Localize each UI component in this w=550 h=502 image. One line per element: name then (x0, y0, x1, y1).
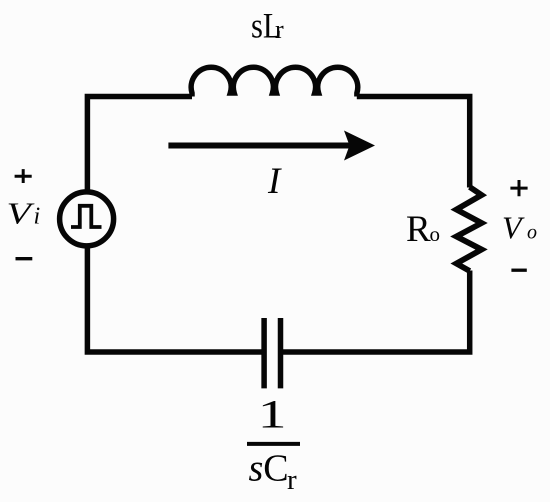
svg-text:I: I (267, 161, 282, 202)
svg-text:V: V (502, 210, 525, 246)
current arrow head (344, 131, 375, 161)
svg-text:r: r (275, 15, 284, 44)
inductor Lr (191, 67, 358, 96)
capacitor Cr right plate (278, 318, 284, 388)
voltage source pulse waveform (71, 206, 102, 227)
svg-text:r: r (287, 464, 297, 496)
svg-text:i: i (34, 204, 41, 230)
svg-text:o: o (527, 222, 537, 244)
current arrow shaft (168, 143, 352, 149)
capacitor Cr left plate (261, 318, 267, 388)
label Vi (source voltage) (7, 196, 36, 231)
label sLr (inductor value) (251, 6, 282, 46)
wire top-right segment (inductor to corner to resistor) (357, 97, 470, 188)
wire bottom-left segment (capacitor to corner to source) (87, 247, 264, 352)
voltage source Vi circle (60, 192, 114, 246)
label - (output minus) (511, 269, 526, 272)
svg-text:1: 1 (258, 392, 287, 436)
label - (source minus) (16, 257, 33, 260)
label + (output plus) (510, 180, 527, 196)
resistor Ro zigzag (456, 187, 481, 271)
svg-text:s: s (249, 448, 264, 490)
svg-text:R: R (406, 209, 431, 250)
svg-text:V: V (7, 196, 36, 231)
wire left-top segment (source to top-left corner to inductor) (87, 97, 192, 192)
svg-text:C: C (263, 448, 288, 490)
label + (source plus) (15, 169, 32, 183)
label capacitor fraction bar (247, 442, 300, 446)
svg-text:o: o (430, 222, 441, 246)
label capacitor fraction numerator 1 (258, 392, 287, 436)
wire right-bottom segment (resistor to corner to capacitor) (281, 271, 470, 353)
svg-text:s: s (251, 6, 263, 46)
